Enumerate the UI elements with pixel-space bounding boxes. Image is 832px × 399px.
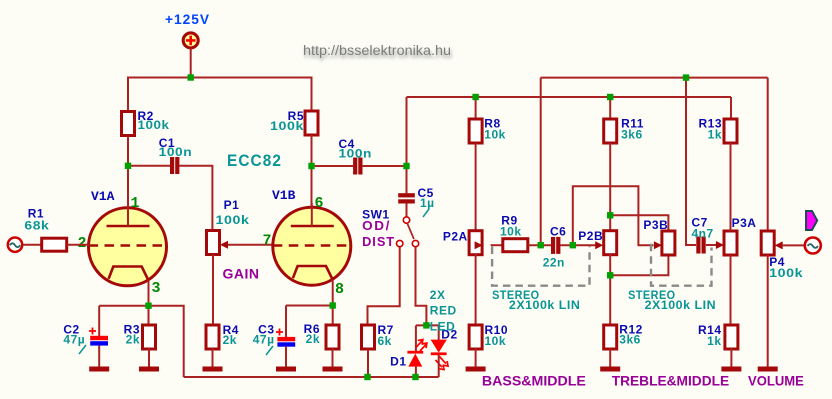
svg-text:RED: RED <box>430 304 457 318</box>
svg-text:http://bsselektronika.hu: http://bsselektronika.hu <box>303 42 451 58</box>
wire rail A right column to P4 <box>767 78 769 231</box>
svg-text:100n: 100n <box>339 147 373 161</box>
wire R6 top lead <box>332 306 334 326</box>
ground R12 <box>600 367 620 372</box>
wire rail A middle column to C7 <box>686 78 696 245</box>
wire D2 top lead <box>438 325 440 340</box>
wire R11 bottom to P2B <box>609 143 611 231</box>
ground P4 <box>758 367 778 372</box>
svg-text:2: 2 <box>78 235 87 252</box>
resistor R2 <box>122 112 135 136</box>
svg-text:6: 6 <box>315 195 324 212</box>
resistor R5 <box>305 111 318 135</box>
wire C3 bottom lead <box>285 347 287 367</box>
wire P1 wiper to V1B grid pin 7 <box>228 244 274 246</box>
resistor R12 <box>604 325 617 349</box>
tube V1A envelope <box>89 208 167 286</box>
resistor R3 <box>143 325 156 349</box>
svg-text:+125V: +125V <box>165 11 210 27</box>
node junction <box>330 302 336 308</box>
wire R2 top lead <box>127 77 129 112</box>
wire R13 top lead <box>730 97 732 119</box>
tube V1A grid <box>89 244 167 247</box>
wire D2 bottom lead <box>438 355 440 377</box>
svg-text:68k: 68k <box>24 219 49 233</box>
wire R7 bottom lead <box>367 349 369 378</box>
wire R11 top lead <box>609 97 611 119</box>
potentiometer P1 <box>207 231 220 255</box>
wire P3A bottom to R14 <box>730 255 732 325</box>
svg-text:1k: 1k <box>707 334 721 348</box>
svg-text:V1B: V1B <box>272 188 296 203</box>
wire P4 bottom lead <box>767 255 769 367</box>
svg-text:P3A: P3A <box>732 216 757 230</box>
tube V1B envelope <box>273 207 351 285</box>
diode D2 LED <box>431 340 447 353</box>
output flag symbol <box>806 211 817 230</box>
node junction <box>607 272 613 278</box>
tube V1A cathode <box>109 267 149 281</box>
node junction <box>607 212 613 218</box>
tube V1B grid <box>273 244 351 247</box>
svg-text:8: 8 <box>335 281 344 298</box>
svg-text:47µ: 47µ <box>253 332 275 346</box>
wire D1 bottom lead <box>415 367 417 377</box>
wire P2A bottom to R10 <box>475 254 477 325</box>
wire cathode to C2 <box>99 305 148 307</box>
svg-text:100k: 100k <box>270 119 304 133</box>
svg-text:1: 1 <box>131 195 140 212</box>
potentiometer P2A <box>469 231 482 255</box>
wire V1B cathode pin 8 lead <box>332 280 334 306</box>
svg-text:2k: 2k <box>126 333 140 347</box>
capacitor C7 <box>696 237 700 254</box>
wire C1 left <box>128 165 170 167</box>
potentiometer P2B <box>604 231 617 255</box>
wire D1 top lead <box>415 325 417 351</box>
svg-text:2X: 2X <box>430 288 446 302</box>
capacitor C4 <box>353 158 357 175</box>
svg-text:D1: D1 <box>390 355 406 369</box>
potentiometer P3B <box>662 231 675 255</box>
svg-text:P2B: P2B <box>578 229 603 243</box>
wire input to R1 <box>23 244 42 246</box>
svg-text:100k: 100k <box>769 266 803 280</box>
potentiometer P3A <box>724 231 737 255</box>
wire rail B <box>407 96 732 98</box>
wire rail A left column to C6 <box>540 78 542 246</box>
node junction <box>308 163 314 169</box>
resistor R10 <box>469 325 482 349</box>
wire P2A wiper to R9 <box>491 244 503 246</box>
power symbol +125V terminal <box>183 33 198 48</box>
svg-text:DIST: DIST <box>362 234 395 249</box>
capacitor C3 electrolytic <box>277 337 295 341</box>
svg-text:10k: 10k <box>500 225 522 239</box>
resistor R11 <box>604 119 617 143</box>
svg-text:3k6: 3k6 <box>619 333 641 347</box>
wire LED top bar <box>416 324 439 326</box>
node junction <box>125 163 131 169</box>
svg-text:P2A: P2A <box>443 230 468 244</box>
svg-text:2k: 2k <box>306 332 320 346</box>
resistor R8 <box>469 119 482 143</box>
capacitor C6 <box>551 237 555 254</box>
capacitor C5 <box>398 193 415 197</box>
resistor R14 <box>725 325 738 349</box>
wire R5 top lead <box>311 77 313 111</box>
svg-text:2X100k LIN: 2X100k LIN <box>509 298 581 312</box>
switch SW1 <box>403 217 409 223</box>
svg-text:BASS&MIDDLE: BASS&MIDDLE <box>482 372 586 388</box>
svg-text:22n: 22n <box>543 256 565 270</box>
svg-text:10k: 10k <box>485 334 507 348</box>
wire C2 bottom lead <box>98 346 100 367</box>
resistor R1 <box>42 238 67 251</box>
wire bottom return rail <box>184 376 439 378</box>
wire C6 right to P2B wiper <box>560 244 596 246</box>
wire top supply rail <box>128 77 312 79</box>
wire P2B bottom to P3B bottom <box>610 254 668 276</box>
node junction <box>145 303 151 309</box>
wire P1 bottom to R4 <box>212 255 214 326</box>
svg-text:ECC82: ECC82 <box>227 151 282 170</box>
capacitor C2 electrolytic <box>90 336 108 340</box>
ground C3 <box>276 367 296 372</box>
svg-text:10k: 10k <box>484 128 506 142</box>
wire V1A plate lead <box>127 203 129 227</box>
svg-text:3: 3 <box>152 280 161 297</box>
wire to P3B top <box>610 215 668 232</box>
svg-text:TREBLE&MIDDLE: TREBLE&MIDDLE <box>612 372 730 388</box>
svg-text:VOLUME: VOLUME <box>748 372 804 388</box>
wire R8 bottom to P2A <box>475 143 477 231</box>
svg-text:1µ: 1µ <box>420 196 435 210</box>
svg-text:2X100k LIN: 2X100k LIN <box>645 298 717 312</box>
wire P2B bottom <box>609 254 611 325</box>
ground R3 <box>139 367 159 372</box>
node junction <box>538 242 544 248</box>
svg-text:47µ: 47µ <box>63 332 85 346</box>
wire R3 bottom lead <box>148 349 150 368</box>
wire R2 bottom to V1A plate <box>127 136 129 227</box>
ground C2 <box>89 367 109 372</box>
node junction <box>364 374 370 380</box>
resistor R7 <box>362 325 375 349</box>
svg-text:100n: 100n <box>159 145 193 159</box>
ground R14 <box>721 367 741 372</box>
svg-text:OD/: OD/ <box>362 218 391 233</box>
stereo box 1 <box>492 247 589 286</box>
wire rail A <box>541 77 768 79</box>
wire C7 right to P3A wiper <box>706 244 717 246</box>
wire R4 bottom lead <box>212 349 214 368</box>
wire P4 wiper to output <box>783 244 805 246</box>
wire C4 left <box>312 165 354 167</box>
wire V1B plate lead <box>311 203 313 227</box>
wire C3 top lead <box>285 306 287 338</box>
wire R5 bottom to V1B plate <box>311 135 313 226</box>
svg-text:6k: 6k <box>378 334 392 348</box>
svg-text:4n7: 4n7 <box>692 226 714 240</box>
stereo box 2 <box>651 244 712 286</box>
node junction <box>423 322 429 328</box>
resistor R9 <box>503 239 528 252</box>
wire SW1 left contact to R7 <box>368 247 400 325</box>
wire R9 to C6 <box>528 244 551 246</box>
node junction <box>607 94 613 100</box>
input terminal <box>8 238 22 252</box>
svg-text:3k6: 3k6 <box>621 128 643 142</box>
wire R8 top lead <box>475 97 477 119</box>
svg-text:100k: 100k <box>216 213 250 227</box>
wire cathode junction to bottom rail corner <box>149 306 184 377</box>
svg-text:100k: 100k <box>138 118 170 132</box>
output terminal <box>805 238 821 254</box>
wire R14 bottom lead <box>730 349 732 368</box>
svg-text:V1A: V1A <box>91 189 115 204</box>
svg-text:P1: P1 <box>224 198 240 212</box>
ground R4 <box>203 367 223 372</box>
wire R6 bottom lead <box>332 349 334 368</box>
svg-text:LED: LED <box>430 320 456 334</box>
wire power stub <box>190 48 192 78</box>
wire C2 top lead <box>98 306 100 336</box>
wire V1A cathode pin 3 lead <box>148 280 150 306</box>
ground R6 <box>323 367 343 372</box>
wire node column <box>406 97 408 193</box>
resistor R4 <box>206 325 219 349</box>
potentiometer P4 <box>761 231 774 255</box>
svg-text:1k: 1k <box>708 128 722 142</box>
wire C6 to tone feed <box>573 186 654 245</box>
node junction <box>570 242 576 248</box>
wire C1 right to P1 top <box>180 166 213 231</box>
node junction <box>188 74 194 80</box>
svg-text:7: 7 <box>263 233 272 250</box>
tube V1A anode <box>107 225 150 228</box>
svg-text:GAIN: GAIN <box>223 266 260 282</box>
node junction <box>403 163 409 169</box>
svg-text:2k: 2k <box>223 333 237 347</box>
tube V1B anode <box>291 225 334 228</box>
wire R10 bottom lead <box>475 349 477 368</box>
wire C4 right to node <box>363 165 407 167</box>
wire R13 bottom to P3A <box>730 143 732 231</box>
node junction <box>472 94 478 100</box>
resistor R13 <box>724 119 737 143</box>
svg-text:C6: C6 <box>550 225 566 239</box>
diode D1 LED <box>407 351 423 354</box>
wire C5 to switch <box>406 204 408 217</box>
resistor R6 <box>326 325 339 349</box>
capacitor C1 <box>170 157 174 174</box>
wire cathode to C3 <box>286 305 333 307</box>
wire R3 top lead <box>148 306 150 325</box>
node junction <box>683 74 689 80</box>
tube V1B cathode <box>293 266 333 280</box>
ground R10 <box>466 367 486 372</box>
wire SW1 right contact to LEDs <box>416 247 427 325</box>
wire R1 to V1A grid pin 2 <box>67 244 90 246</box>
svg-text:P3B: P3B <box>643 218 668 232</box>
node junction <box>412 374 418 380</box>
wire R12 bottom lead <box>609 349 611 368</box>
